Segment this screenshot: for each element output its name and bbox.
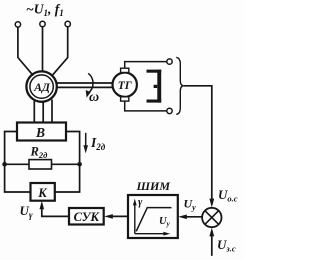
- svg-text:СУК: СУК: [74, 210, 101, 224]
- resistor R2d: [29, 160, 52, 169]
- terminal TG bottom: [167, 108, 172, 113]
- wire ShIM to SUK: [109, 215, 128, 217]
- wire resistor branch: [5, 163, 80, 165]
- summing junction: [202, 208, 221, 227]
- svg-text:Uз.с: Uз.с: [217, 237, 236, 254]
- arrowhead into K bottom: [40, 201, 45, 209]
- wire TG top output: [125, 62, 167, 69]
- rectifier B: [17, 123, 66, 141]
- wire phase B: [42, 27, 44, 72]
- arrowhead into ShIM right: [178, 215, 187, 220]
- shaft coupling AD-TG: [57, 83, 113, 87]
- junction dot right: [77, 162, 82, 167]
- rotation arrow omega: [86, 73, 99, 105]
- arrowhead into SUK right: [104, 214, 113, 219]
- terminal X2: [40, 21, 45, 26]
- arrowhead into summer top: [209, 199, 214, 208]
- svg-text:Uо.с: Uо.с: [218, 187, 238, 204]
- junction dot left: [2, 162, 7, 167]
- svg-text:Uу: Uу: [159, 216, 171, 228]
- wire rotor lead 1: [33, 100, 35, 124]
- current arrow I2d: [85, 133, 87, 147]
- svg-text:ТГ: ТГ: [118, 80, 132, 92]
- svg-text:~U1, f1: ~U1, f1: [26, 2, 64, 19]
- wire phase C: [52, 27, 68, 75]
- wire setpoint into summer bottom: [211, 232, 213, 256]
- wire rotor lead 3: [51, 100, 53, 124]
- graph curve: [136, 208, 171, 232]
- motor AD U-M1: [26, 71, 56, 101]
- graph axis vertical: [134, 202, 136, 234]
- svg-text:Uγ: Uγ: [20, 203, 33, 220]
- brush bottom of TG: [121, 97, 129, 101]
- wire rotor lead 2: [42, 102, 44, 124]
- brace output bundle: [176, 57, 184, 114]
- PWM block ShIM: [128, 195, 178, 238]
- tachogenerator TG: [113, 73, 137, 97]
- svg-text:К: К: [37, 186, 48, 200]
- svg-text:Uу: Uу: [184, 197, 197, 213]
- wire B left loop: [5, 132, 31, 193]
- svg-text:R2д: R2д: [30, 145, 49, 161]
- arrowhead into summer bottom: [209, 228, 214, 237]
- magnet stator of TG: [147, 70, 162, 103]
- svg-text:В: В: [35, 125, 45, 140]
- wire phase A: [18, 27, 33, 75]
- wire B right loop: [55, 132, 80, 193]
- svg-text:ω: ω: [89, 90, 99, 105]
- wire SUK to switch K: [42, 207, 69, 216]
- wire summer to ShIM: [185, 216, 202, 218]
- svg-text:АД: АД: [33, 80, 51, 94]
- wire TG bottom output: [125, 101, 167, 111]
- svg-text:ШИМ: ШИМ: [136, 179, 171, 193]
- svg-text:I2д: I2д: [90, 135, 106, 152]
- wire feedback to summer: [184, 86, 212, 205]
- terminal X3: [65, 21, 70, 26]
- switch K: [31, 183, 55, 201]
- terminal X1: [15, 22, 20, 27]
- svg-text:γ: γ: [138, 197, 143, 208]
- controller SUK: [69, 208, 104, 225]
- graph axis horizontal: [135, 233, 167, 235]
- terminal TG top: [167, 59, 172, 64]
- brush top of TG: [121, 68, 129, 72]
